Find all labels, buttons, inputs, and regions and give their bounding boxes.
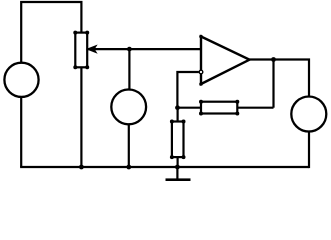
wire: source V3 bottom stem bbox=[308, 131, 310, 168]
op-amp U1 inverting input bubble bbox=[199, 70, 203, 74]
wire: feedback riser to output node bbox=[272, 60, 274, 108]
resistor R3 (vertical) bbox=[170, 120, 186, 160]
wire: potentiometer R1 bottom to bottom rail bbox=[80, 67, 82, 167]
junction: ground x rail bbox=[175, 165, 180, 170]
potentiometer R1 wiper arrow bbox=[87, 46, 96, 53]
wire: source V1 bottom to bottom rail bbox=[20, 96, 22, 167]
wire: source V2 bottom stem bbox=[128, 124, 130, 167]
resistor R2 (feedback, horizontal) bbox=[199, 100, 239, 116]
op-amp U1 bbox=[199, 35, 249, 86]
source V1 (left circle) bbox=[4, 63, 38, 97]
wire: source V1 top via top rail to potentiometer R1 top bbox=[21, 2, 81, 63]
ground bbox=[166, 178, 191, 181]
wire: resistor R3 bottom stem bbox=[177, 157, 179, 167]
potentiometer R1 body bbox=[73, 31, 89, 70]
wire: ground stem bbox=[176, 167, 178, 179]
wire: op-amp inverting input to feedback node bbox=[177, 72, 198, 108]
wire: op-amp output to source V3 top bbox=[249, 60, 309, 97]
wire: source V2 top stem bbox=[128, 49, 130, 90]
junction: V2 x rail bbox=[126, 165, 131, 170]
wire: resistor R3 top stem bbox=[177, 108, 179, 122]
wire: feedback node to resistor R2 left bbox=[177, 107, 201, 109]
wire: bottom rail bbox=[20, 166, 309, 168]
source V2 (middle circle) bbox=[111, 90, 146, 125]
junction: wiper line x V2 stem bbox=[127, 47, 132, 52]
junction: output node bbox=[271, 57, 276, 62]
junction: feedback node bbox=[175, 105, 180, 110]
wire: wiper to op-amp non-inverting input bbox=[88, 48, 201, 50]
source V3 (right circle) bbox=[291, 97, 326, 132]
junction: R1 bottom x rail bbox=[79, 165, 84, 170]
wire: resistor R2 right to feedback riser bbox=[237, 107, 273, 109]
